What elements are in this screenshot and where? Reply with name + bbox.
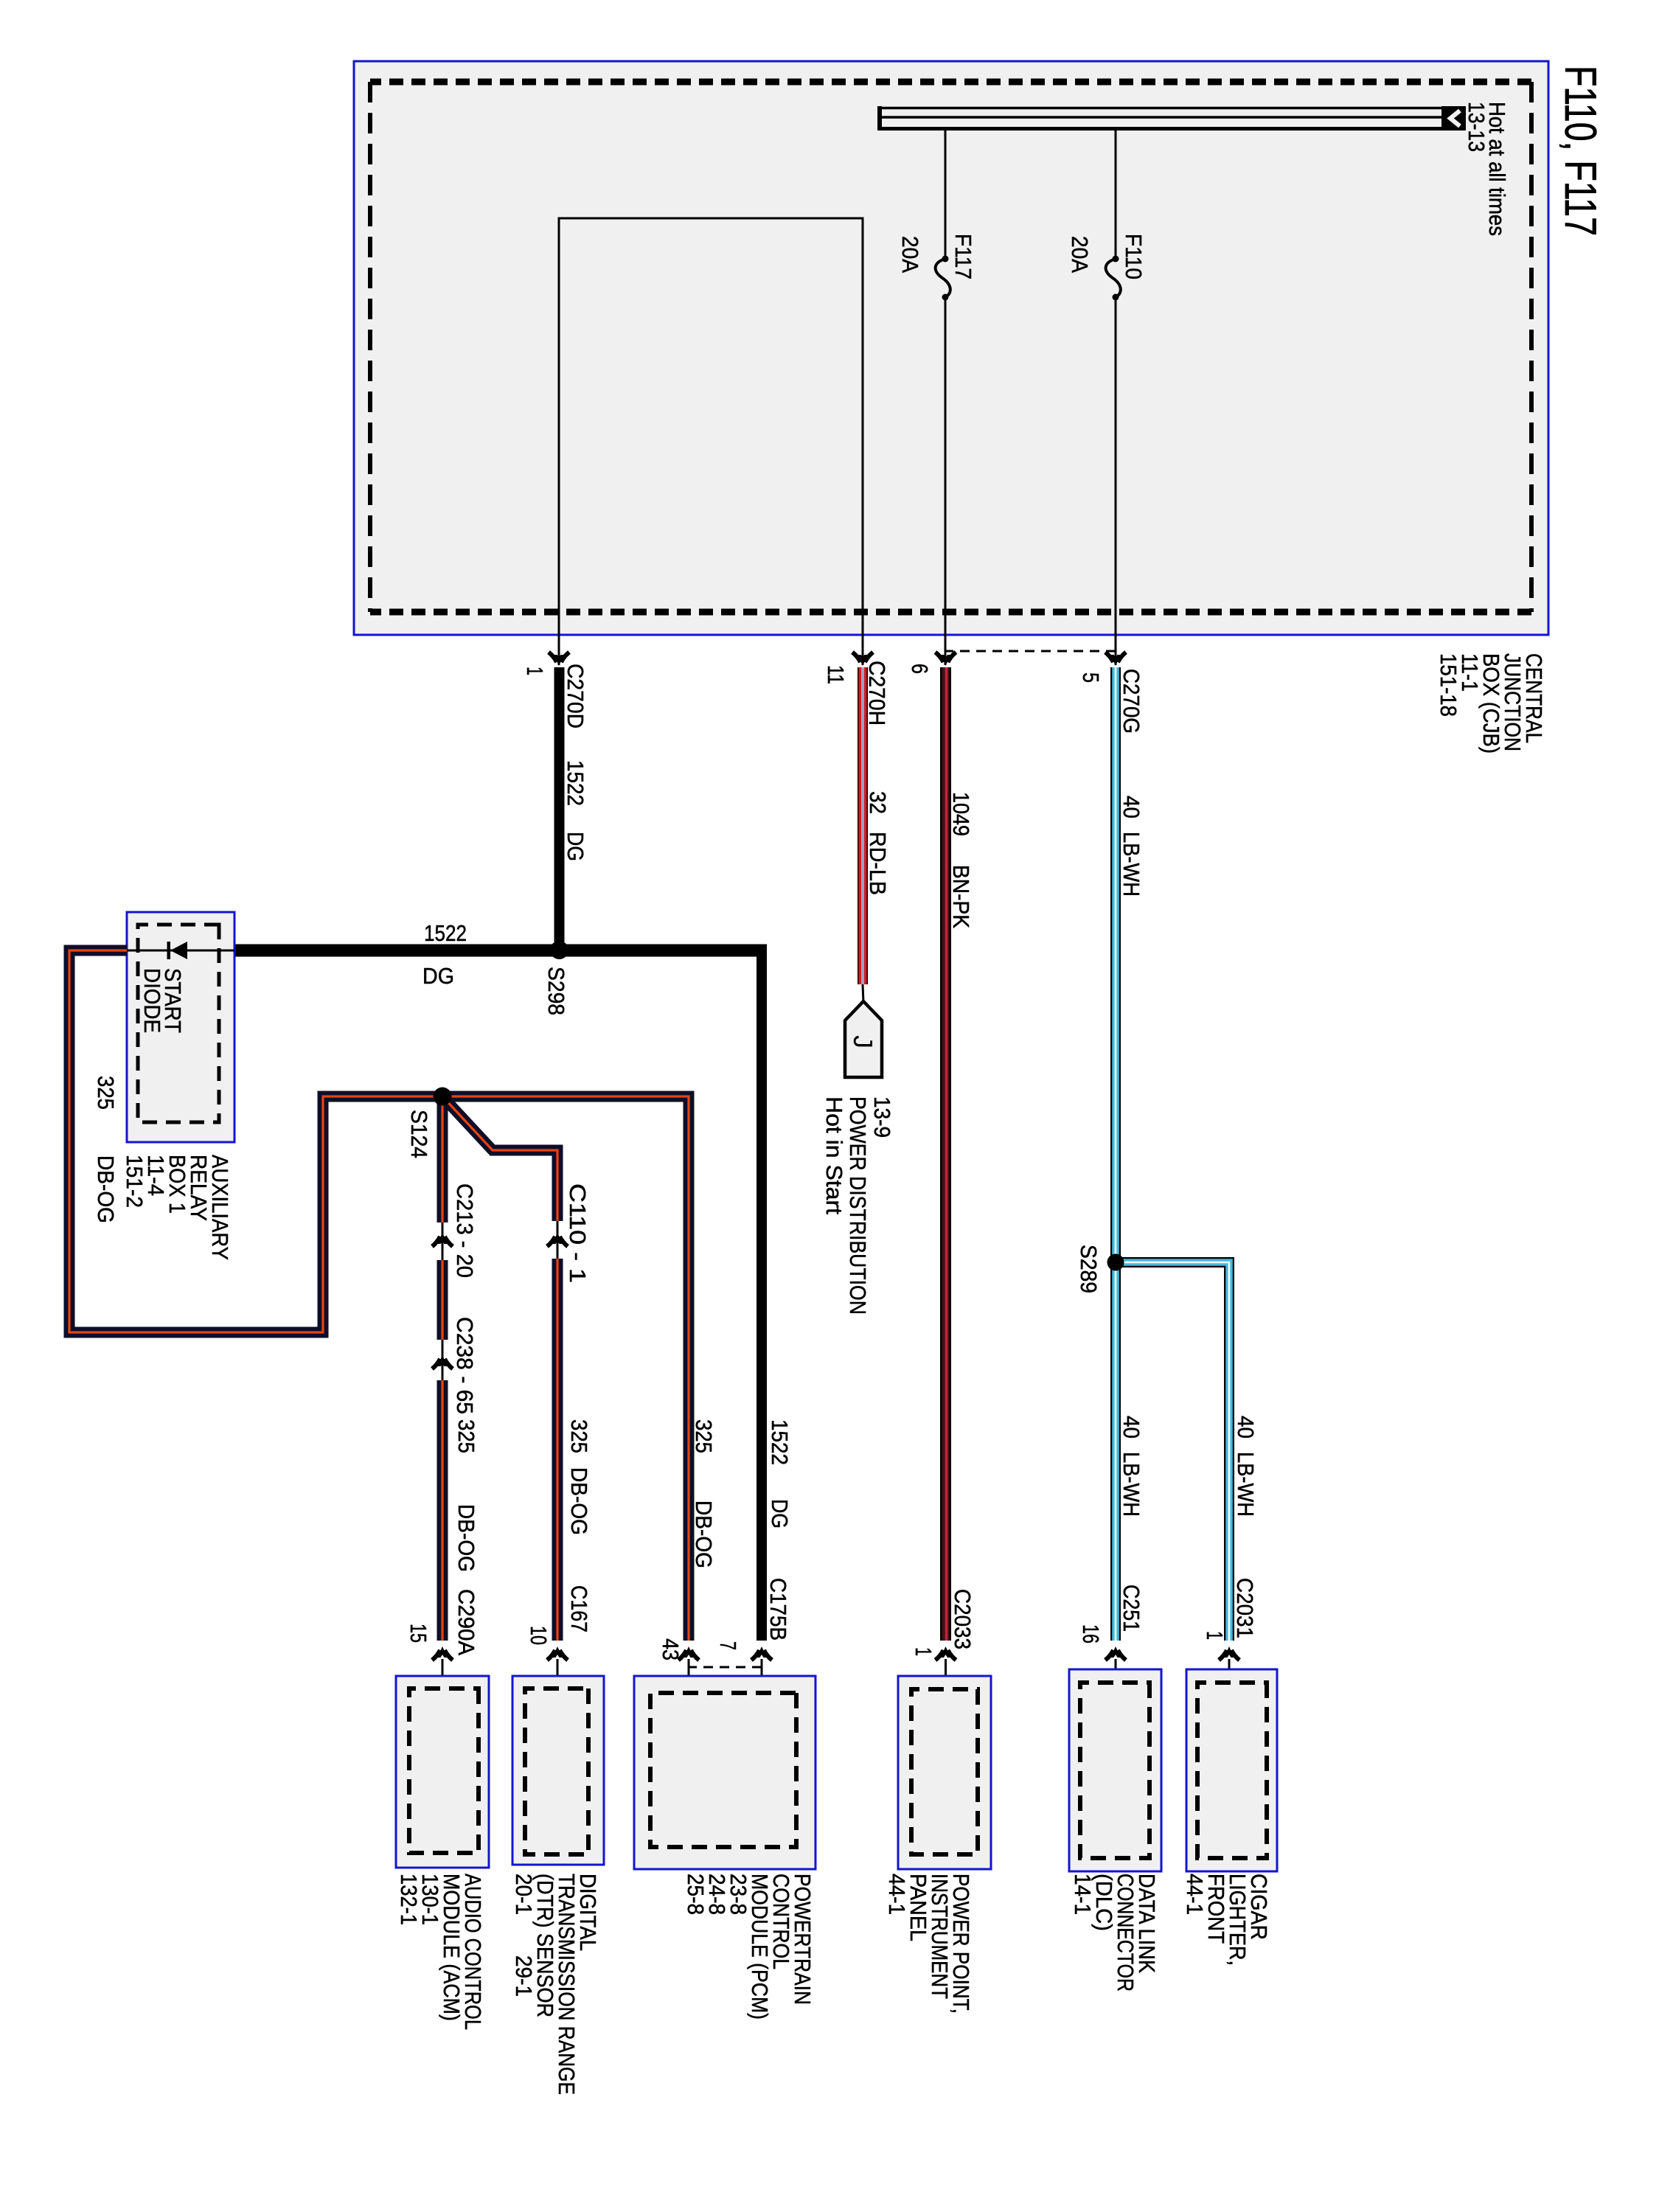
svg-text:11: 11 (823, 665, 849, 684)
svg-text:5: 5 (1078, 672, 1104, 683)
svg-text:1522: 1522 (563, 760, 588, 806)
svg-text:C2033: C2033 (950, 1589, 975, 1649)
svg-text:16: 16 (1078, 1624, 1104, 1644)
svg-text:DB-OG: DB-OG (691, 1500, 717, 1568)
svg-text:F110, F117: F110, F117 (1556, 66, 1605, 236)
svg-text:32: 32 (865, 791, 891, 814)
CJB inner dashed border left (370, 79, 1531, 86)
wire 1522 DG to PCM pin7 (757, 945, 767, 1641)
wire 1522 DG from C270D to S298 (554, 667, 565, 947)
wire 40 LB-WH main (1110, 667, 1121, 1641)
diode (170, 942, 187, 959)
dashed link near PCM (689, 1666, 762, 1669)
svg-text:F117: F117 (950, 234, 976, 279)
svg-text:DIODE: DIODE (139, 968, 165, 1033)
svg-text:1: 1 (911, 1647, 936, 1656)
svg-text:40: 40 (1119, 796, 1144, 818)
svg-text:C270G: C270G (1119, 669, 1144, 734)
svg-text:13-13: 13-13 (1464, 102, 1489, 152)
svg-text:44-1: 44-1 (884, 1874, 910, 1915)
power bus bar (879, 107, 1466, 110)
svg-text:6: 6 (907, 664, 933, 674)
connector pin6 exit arrow (936, 653, 956, 667)
wire through start diode (127, 950, 234, 952)
svg-text:RD-LB: RD-LB (865, 832, 891, 895)
connector pin 43 arrow (678, 1646, 699, 1660)
wire 325 DB-OG loop (69, 950, 689, 1641)
bus bar end cap (877, 106, 882, 131)
svg-text:DG: DG (563, 832, 588, 861)
svg-text:S124: S124 (406, 1110, 432, 1158)
svg-text:S298: S298 (543, 967, 569, 1015)
svg-text:1049: 1049 (948, 792, 974, 836)
svg-text:F110: F110 (1121, 234, 1147, 279)
connector C2033 (936, 1646, 956, 1660)
svg-text:1: 1 (1202, 1631, 1228, 1640)
connector C213-20 (432, 1233, 453, 1247)
connector C2031 (1219, 1646, 1239, 1660)
connector C167 (547, 1646, 568, 1660)
svg-text:BN-PK: BN-PK (948, 865, 974, 928)
svg-text:LB-WH: LB-WH (1119, 832, 1144, 897)
svg-text:1522: 1522 (767, 1419, 793, 1465)
box audio control module ACM (396, 1676, 489, 1868)
wire 325 DB-OG S124 to ACM (437, 1096, 448, 1222)
connector C238-65 (432, 1355, 453, 1369)
connector C175B (751, 1646, 772, 1660)
wire 1522 DG vertical trunk (234, 945, 767, 957)
dashed link below CJB exits (946, 650, 1116, 653)
wire from bus through fuse F110 (1115, 130, 1117, 259)
fuse F110 (1113, 256, 1119, 262)
svg-text:1: 1 (522, 667, 548, 675)
svg-text:C2031: C2031 (1232, 1578, 1258, 1638)
fuse F117 (942, 256, 949, 262)
svg-text:29-1: 29-1 (511, 1955, 537, 1997)
svg-text:DB-OG: DB-OG (93, 1155, 119, 1223)
svg-text:20A: 20A (1067, 236, 1093, 273)
svg-text:C175B: C175B (765, 1578, 791, 1641)
splice S124 (434, 1088, 452, 1106)
svg-text:C251: C251 (1119, 1585, 1144, 1632)
connector C251 (1105, 1646, 1126, 1660)
svg-text:13-9: 13-9 (869, 1096, 895, 1138)
svg-text:C270D: C270D (563, 664, 588, 728)
connector C110-1 (547, 1233, 568, 1247)
bus bar feed arrow (1441, 106, 1466, 131)
svg-text:LB-WH: LB-WH (1119, 1452, 1144, 1517)
svg-text:C270H: C270H (864, 661, 890, 726)
wire 1049 BN-PK (940, 667, 951, 1641)
power distribution flag J (863, 984, 863, 1003)
svg-text:20A: 20A (897, 236, 923, 273)
svg-text:14-1: 14-1 (1070, 1874, 1096, 1915)
connector C270G exit arrow (1105, 653, 1126, 667)
wire 40 LB-WH branch to cigar lighter (1116, 1262, 1229, 1641)
junction box CJB outline (354, 61, 1548, 635)
box cigar lighter front (1186, 1669, 1277, 1871)
start diode box (127, 912, 234, 1142)
wire 325 DB-OG S124 to DTR (442, 1096, 557, 1221)
svg-text:325: 325 (93, 1076, 119, 1110)
box data link connector DLC (1069, 1669, 1161, 1871)
svg-text:25-8: 25-8 (683, 1874, 709, 1915)
svg-text:132-1: 132-1 (396, 1874, 422, 1925)
svg-text:20-1: 20-1 (511, 1874, 537, 1915)
CJB internal wire to C270D and C270H (559, 218, 863, 665)
svg-text:325: 325 (453, 1419, 479, 1453)
svg-text:POWER DISTRIBUTION: POWER DISTRIBUTION (845, 1096, 871, 1315)
CJB inner dashed border bottom (368, 82, 372, 612)
box powertrain control module PCM (634, 1676, 815, 1869)
svg-text:LB-WH: LB-WH (1233, 1452, 1259, 1517)
svg-text:C167: C167 (566, 1585, 592, 1632)
CJB inner dashed border top (1529, 82, 1534, 612)
svg-text:C290A: C290A (453, 1589, 479, 1655)
svg-text:325: 325 (566, 1419, 592, 1453)
svg-text:325: 325 (691, 1419, 717, 1453)
svg-text:Hot in Start: Hot in Start (821, 1096, 847, 1214)
CJB inner dashed border right (370, 609, 1531, 616)
connector C290A (432, 1646, 453, 1660)
svg-text:DG: DG (767, 1499, 793, 1528)
splice S298 (550, 941, 568, 959)
svg-text:44-1: 44-1 (1182, 1874, 1208, 1915)
connector C270D exit arrow (549, 653, 569, 667)
svg-text:C110 - 1: C110 - 1 (565, 1183, 591, 1283)
connector C270H exit arrow (852, 653, 873, 667)
svg-text:1522: 1522 (424, 920, 467, 946)
svg-text:10: 10 (526, 1626, 552, 1645)
svg-text:40: 40 (1233, 1416, 1259, 1439)
svg-text:DB-OG: DB-OG (453, 1504, 479, 1572)
svg-text:DB-OG: DB-OG (566, 1467, 592, 1535)
svg-text:S289: S289 (1076, 1245, 1102, 1293)
svg-text:40: 40 (1119, 1416, 1144, 1439)
svg-text:DG: DG (422, 963, 454, 989)
wire from bus through fuse F117 (945, 130, 947, 259)
splice S289 (1107, 1254, 1124, 1271)
box power point instrument panel (898, 1676, 991, 1869)
svg-text:151-2: 151-2 (122, 1155, 147, 1208)
svg-text:C238 - 65: C238 - 65 (452, 1317, 478, 1414)
svg-text:151-18: 151-18 (1436, 653, 1461, 717)
wire 32 RD-LB (858, 667, 868, 984)
svg-text:C213 - 20: C213 - 20 (452, 1183, 478, 1278)
svg-text:7: 7 (715, 1641, 741, 1650)
svg-text:15: 15 (406, 1624, 431, 1643)
box DTR sensor (512, 1676, 604, 1865)
svg-text:J: J (848, 1035, 878, 1048)
